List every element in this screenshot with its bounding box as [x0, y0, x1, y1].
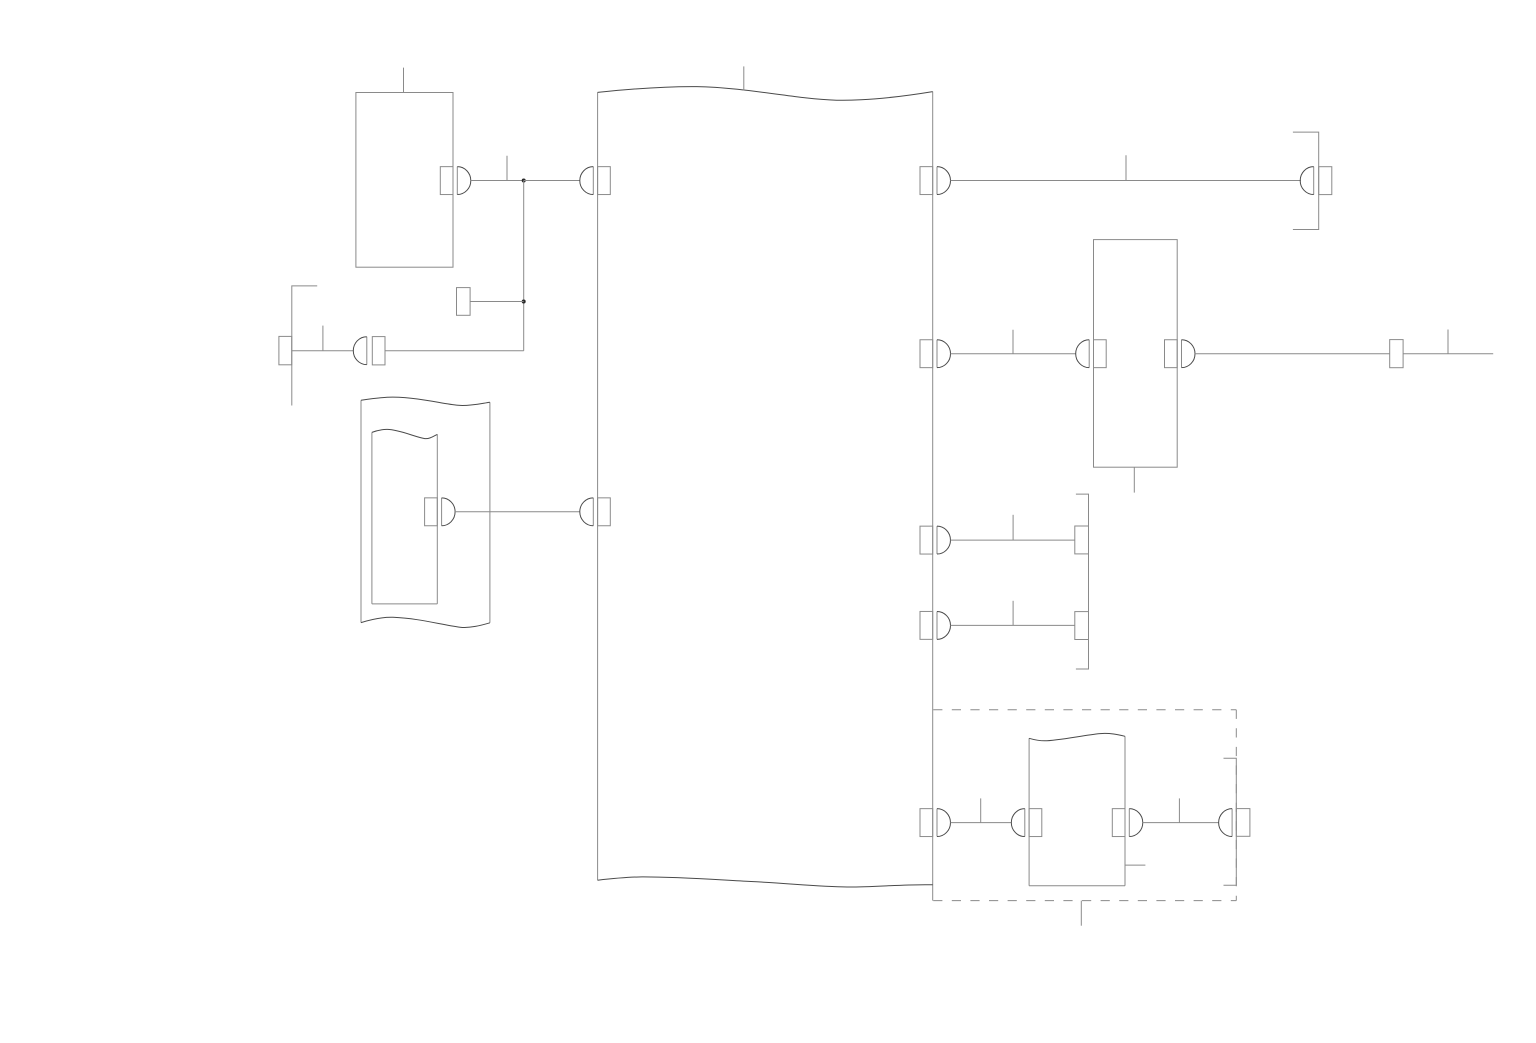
bracket BRK4 on dashed edge [1224, 758, 1237, 885]
main harness block top wavy edge [598, 87, 933, 101]
inner sheet W3 right edge [1124, 736, 1126, 885]
wire row1 [950, 180, 1301, 182]
junction dot A [522, 179, 526, 183]
inline connector pair [366, 337, 368, 365]
wire row5 right [1143, 822, 1219, 824]
connector rect on BRK1 [279, 336, 292, 364]
component box B1 [356, 93, 453, 268]
connector pin W3 right [1112, 809, 1125, 837]
tick on wire row2 [1012, 330, 1014, 354]
tick on wire row1 [1125, 155, 1127, 180]
connector pin W3 left [1029, 809, 1042, 837]
inner sheet W3 bottom edge [1029, 885, 1125, 887]
wire R1 to junction [470, 301, 524, 303]
wire row2 left [950, 353, 1075, 355]
connector pin W2 right [425, 498, 438, 526]
connector rect on BRK3 upper [1075, 526, 1089, 554]
connector pin B2 right [1165, 340, 1178, 368]
splice rect R1 [457, 288, 471, 316]
connector pin main block right 1 [920, 167, 933, 195]
inner sheet W3 left edge [1028, 738, 1030, 885]
connector pin main block left bottom [598, 498, 611, 526]
tick on wire row2 right [1447, 330, 1449, 354]
wire junction to main block [524, 180, 580, 182]
tick above main block [743, 66, 745, 90]
bracket BRK1 [292, 286, 317, 406]
inner sheet W2 top wavy edge [372, 429, 437, 438]
tick on wire row3 [1012, 515, 1014, 540]
main harness block bottom wavy edge [598, 877, 933, 887]
inner sheet W2 right edge [436, 434, 438, 604]
connector pin main block left top [598, 167, 611, 195]
component box B2 [1094, 240, 1178, 468]
connector pin main block right 5 [920, 809, 933, 837]
harness sheet W1 bottom wavy edge [361, 617, 490, 627]
wire BRK1 to inline connector [292, 350, 354, 352]
wire row3 [950, 539, 1074, 541]
connector at BRK2 [1313, 167, 1315, 195]
inner sheet W2 left edge [371, 432, 373, 604]
wire inline connector to corner [385, 350, 524, 352]
connector pin B2 left [1094, 340, 1107, 368]
wire row4 [950, 624, 1074, 626]
harness sheet W1 right edge [489, 402, 491, 623]
tick below dashed enclosure [1080, 901, 1082, 926]
stub at W3 bottom right [1125, 864, 1145, 866]
tick on wire [506, 156, 508, 181]
connector rect on BRK3 lower [1075, 612, 1089, 640]
bracket BRK2 [1293, 132, 1319, 229]
bracket BRK3 [1076, 494, 1089, 669]
connector pin B1 right [440, 167, 453, 195]
connector at BRK4 [1231, 809, 1233, 837]
connector pin main block right 3 [920, 526, 933, 554]
dashed enclosure top edge [933, 709, 1236, 711]
main harness block right edge [932, 92, 934, 901]
inline splice rect R2 [1390, 340, 1403, 368]
tick above B1 [403, 68, 405, 93]
wire row5 left [950, 822, 1011, 824]
connector pin main block right 2 [920, 340, 933, 368]
wire B1 to junction [471, 180, 524, 182]
tick on wire row5 right [1178, 798, 1180, 822]
main harness block left edge [597, 92, 599, 880]
inner sheet W2 bottom edge [372, 603, 437, 605]
wire row2 right [1195, 353, 1493, 355]
dashed enclosure right edge [1235, 710, 1237, 901]
wire vertical drop [523, 181, 525, 351]
dashed enclosure bottom edge [933, 900, 1236, 902]
tick below B2 [1133, 467, 1135, 492]
inner sheet W3 top wavy edge [1029, 733, 1125, 740]
wire W2 to main block [455, 511, 580, 513]
tick on wire row5 left [980, 798, 982, 822]
connector pin main block right 4 [920, 611, 933, 639]
harness sheet W1 top wavy edge [361, 397, 490, 405]
harness sheet W1 left edge [360, 400, 362, 622]
tick on wire row4 [1012, 601, 1014, 626]
junction dot B [522, 300, 526, 304]
tick on wire [322, 326, 324, 351]
